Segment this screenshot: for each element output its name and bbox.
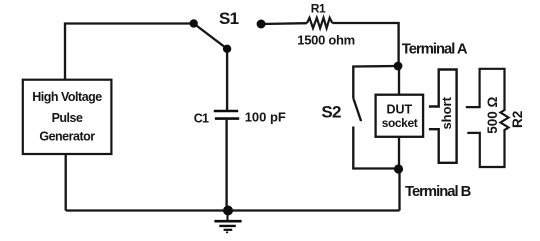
node Terminal B xyxy=(394,164,403,173)
wire xyxy=(65,154,67,211)
svg-text:short: short xyxy=(439,96,454,129)
svg-text:Terminal A: Terminal A xyxy=(402,42,468,58)
resistor R1 xyxy=(307,18,332,28)
ground xyxy=(214,213,241,233)
wire xyxy=(398,137,400,169)
wire xyxy=(65,24,193,80)
wire xyxy=(261,22,307,25)
svg-text:High Voltage: High Voltage xyxy=(32,90,102,104)
svg-text:Generator: Generator xyxy=(39,129,95,143)
wire xyxy=(332,23,398,66)
wire xyxy=(226,49,228,110)
svg-text:S2: S2 xyxy=(321,102,341,121)
svg-text:R2: R2 xyxy=(510,111,525,128)
switch S2 xyxy=(354,99,362,121)
wire xyxy=(225,120,227,211)
junction ground node xyxy=(223,206,233,216)
short plug xyxy=(429,70,457,163)
svg-text:R1: R1 xyxy=(311,1,326,15)
High Voltage Pulse Generator xyxy=(23,80,112,154)
node Terminal A xyxy=(394,62,403,71)
wire xyxy=(353,127,398,169)
DUT socket U1 xyxy=(376,95,424,137)
svg-text:500 Ω: 500 Ω xyxy=(485,96,500,133)
wire xyxy=(66,209,400,211)
svg-text:S1: S1 xyxy=(219,9,239,28)
wire xyxy=(353,66,398,99)
svg-text:DUT: DUT xyxy=(386,103,412,117)
capacitor C1 xyxy=(214,111,239,119)
resistor R2 plug xyxy=(466,69,509,167)
switch S1 xyxy=(190,19,266,53)
svg-text:C1: C1 xyxy=(194,112,209,126)
svg-text:socket: socket xyxy=(382,116,418,130)
svg-text:Pulse: Pulse xyxy=(52,111,83,125)
wire xyxy=(398,169,400,211)
svg-text:100 pF: 100 pF xyxy=(245,109,286,124)
svg-text:1500 ohm: 1500 ohm xyxy=(297,33,355,48)
svg-text:Terminal B: Terminal B xyxy=(405,184,472,200)
wire xyxy=(398,66,400,95)
